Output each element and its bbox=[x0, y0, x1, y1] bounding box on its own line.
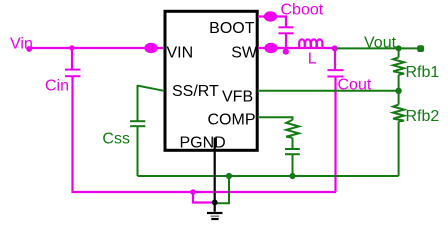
capacitor Css bbox=[130, 121, 145, 176]
resistor Rfb1 bbox=[393, 48, 404, 90]
capacitor Cout bbox=[327, 48, 343, 192]
svg-text:PGND: PGND bbox=[180, 135, 226, 152]
ground bbox=[207, 213, 223, 219]
node junction L-Cout-Vout bbox=[332, 45, 338, 51]
node Vout end terminal bbox=[417, 45, 424, 52]
svg-text:VFB: VFB bbox=[222, 89, 253, 106]
node junction Cboot-SW dot bbox=[283, 49, 289, 55]
wire BOOT net bbox=[258, 17, 286, 28]
wire SS/RT net bbox=[138, 86, 165, 121]
wire COMP net bbox=[258, 117, 293, 120]
svg-text:Css: Css bbox=[102, 130, 130, 147]
svg-text:L: L bbox=[308, 50, 317, 67]
svg-text:Vout: Vout bbox=[364, 35, 397, 52]
pin terminal oval BOOT bbox=[264, 11, 277, 21]
wire VFB net bbox=[258, 90, 399, 92]
pin terminal oval VIN bbox=[144, 43, 157, 53]
wire green jog to ground bbox=[215, 176, 229, 203]
svg-text:Vin: Vin bbox=[10, 35, 33, 52]
wire Vin input net bbox=[29, 47, 164, 49]
capacitor Ccomp bbox=[285, 149, 300, 176]
node junction VFB-Rfb1-Rfb2 bbox=[395, 88, 401, 94]
node junction on magenta rail bbox=[190, 189, 196, 195]
wire Vout net bbox=[337, 47, 421, 49]
node junction green rail to ground bbox=[226, 173, 232, 179]
op-amp U1 (buck converter IC body) bbox=[165, 11, 257, 150]
node junction PGND-ground bbox=[212, 200, 218, 206]
inductor L bbox=[299, 39, 322, 48]
svg-text:VIN: VIN bbox=[167, 45, 194, 62]
node junction Vout-Rfb1 bbox=[396, 45, 402, 51]
svg-text:Rfb2: Rfb2 bbox=[406, 108, 440, 125]
resistor Rfb2 bbox=[393, 91, 404, 176]
node Vin port dot bbox=[26, 46, 32, 52]
svg-text:SW: SW bbox=[231, 45, 258, 62]
svg-text:SS/RT: SS/RT bbox=[172, 83, 219, 100]
wire SW net bbox=[258, 47, 335, 49]
wire ground rail magenta bottom bbox=[71, 191, 336, 193]
node junction Cin on Vin wire bbox=[69, 45, 74, 50]
node junction Rcomp network to green rail bbox=[289, 173, 295, 179]
wire magenta jog to ground bbox=[193, 192, 215, 203]
svg-text:COMP: COMP bbox=[208, 112, 256, 129]
svg-text:Cin: Cin bbox=[45, 78, 69, 95]
wire PGND net bbox=[214, 138, 216, 212]
svg-text:Cboot: Cboot bbox=[281, 2, 324, 19]
capacitor Cin bbox=[65, 48, 81, 192]
capacitor Cboot bbox=[278, 27, 293, 50]
svg-text:Rfb1: Rfb1 bbox=[406, 64, 440, 81]
wire ground rail green bottom bbox=[138, 175, 399, 177]
svg-text:BOOT: BOOT bbox=[209, 20, 255, 37]
resistor Rcomp bbox=[286, 120, 299, 149]
pin terminal oval SW bbox=[264, 43, 277, 53]
